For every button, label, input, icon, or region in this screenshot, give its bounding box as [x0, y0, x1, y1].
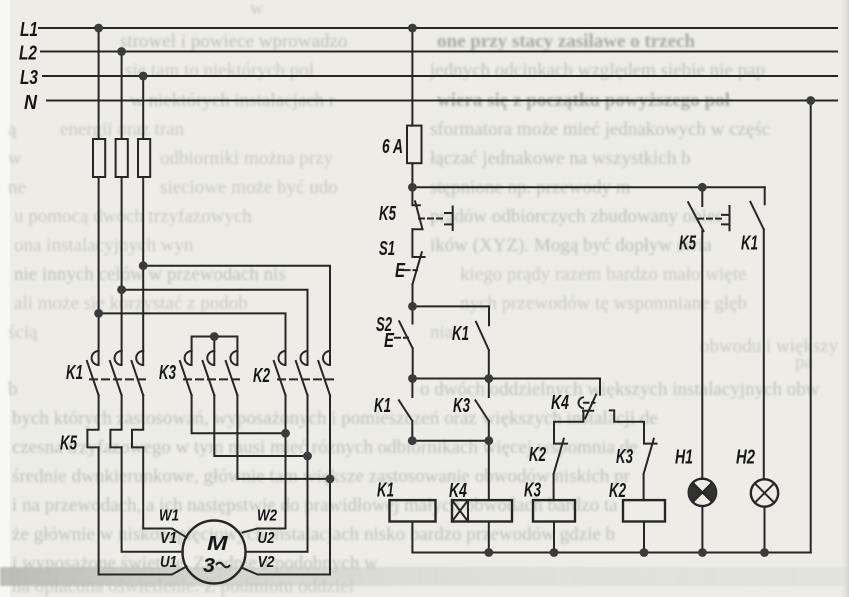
- junction dot rail bottom H2: [760, 548, 769, 557]
- svg-text:U1: U1: [160, 554, 177, 571]
- pushbutton actuator K5: [419, 207, 453, 231]
- junction dot node W2: [281, 429, 290, 438]
- label L1: [20, 18, 38, 41]
- junction dot rail D right: [484, 436, 493, 445]
- svg-text:odbiorniki można przy: odbiorniki można przy: [160, 148, 334, 169]
- motor M circle: [183, 521, 246, 584]
- svg-text:K1: K1: [374, 394, 391, 417]
- svg-text:sformatora może mieć jednakowy: sformatora może mieć jednakowych w częśc: [430, 119, 770, 140]
- svg-text:H2: H2: [736, 446, 755, 469]
- junction dot tap L3: [139, 261, 148, 270]
- svg-text:ą: ą: [8, 119, 17, 140]
- svg-text:strowel i powiece wprowadzo: strowel i powiece wprowadzo: [120, 31, 347, 52]
- label K3 interlock: [616, 445, 633, 468]
- wire tap L3 to K2 pole3: [143, 266, 330, 351]
- svg-text:N: N: [24, 91, 38, 114]
- svg-text:K1: K1: [377, 479, 394, 502]
- contact K3 lower: [475, 379, 488, 441]
- label K1 lamp branch: [741, 232, 758, 255]
- bus line L2: [41, 51, 837, 53]
- junction dot L3: [139, 72, 148, 81]
- label N: [24, 91, 38, 114]
- svg-text:3: 3: [203, 554, 216, 577]
- svg-text:H1: H1: [675, 446, 693, 469]
- timed contact K4: [554, 379, 600, 443]
- label K5 thermal: [60, 432, 77, 455]
- label K3 power: [159, 361, 176, 384]
- label K3 lower contact: [453, 394, 470, 417]
- wire K2 pole2 to motor U2: [246, 395, 308, 551]
- junction dot rail bottom H1: [698, 548, 707, 557]
- label U2: [258, 530, 275, 547]
- label K1 coil: [377, 479, 394, 502]
- svg-text:u pomocą dwóch trzyfazowych: u pomocą dwóch trzyfazowych: [14, 206, 252, 227]
- wire K1 pole2 to motor V1: [122, 447, 183, 551]
- pushbutton actuator right K5: [698, 206, 730, 230]
- svg-text:L2: L2: [19, 42, 37, 65]
- thermal element K5 pole1: [87, 395, 98, 447]
- wire phase drop L1: [98, 28, 100, 351]
- svg-text:U2: U2: [258, 530, 275, 547]
- thermal element K5 pole2: [110, 395, 121, 447]
- lamp H1: [689, 479, 716, 553]
- svg-text:łączać jednakowe na wszystkich: łączać jednakowe na wszystkich b: [430, 148, 691, 169]
- svg-text:K1: K1: [452, 322, 469, 345]
- coil K4: [452, 441, 512, 553]
- mechanical link K2: [278, 378, 336, 380]
- svg-text:sieciowe może być udo: sieciowe może być udo: [160, 177, 338, 198]
- junction dot rail bottom K4: [484, 548, 493, 557]
- svg-text:ali może się korzystać z podob: ali może się korzystać z podob: [14, 293, 248, 314]
- contactor K2 pole2: [296, 351, 308, 395]
- wire tap L1 to K2 pole1: [99, 313, 286, 351]
- contactor K1 pole2: [110, 351, 122, 395]
- svg-text:M: M: [207, 532, 229, 555]
- actuator E of S2: [395, 337, 408, 339]
- svg-text:ona instalacyjnych wyn: ona instalacyjnych wyn: [14, 235, 194, 256]
- svg-text:nia: nia: [430, 322, 454, 343]
- svg-text:kiego prądy razem bardzo mało: kiego prądy razem bardzo mało więte: [460, 264, 746, 285]
- label K1 maintaining: [452, 322, 469, 345]
- svg-text:w: w: [8, 148, 22, 169]
- svg-text:K2: K2: [609, 479, 626, 502]
- bottom rail: [412, 552, 810, 554]
- junction dot node V2: [326, 475, 335, 484]
- fuse F3: [138, 139, 150, 177]
- label E1: [395, 259, 406, 282]
- fuse F1: [93, 139, 105, 177]
- neutral return wire: [810, 101, 812, 553]
- label W1: [159, 508, 179, 525]
- junction dot rail C left: [408, 374, 417, 383]
- svg-text:W1: W1: [159, 508, 179, 525]
- svg-text:w: w: [250, 0, 264, 19]
- svg-text:że głównie w niskonapięciowych: że głównie w niskonapięciowych instalacj…: [12, 524, 615, 545]
- label K1 lower contact: [374, 394, 391, 417]
- label K2 interlock: [529, 443, 546, 466]
- junction dot star bridge: [210, 332, 219, 341]
- delay symbol K4: [578, 397, 594, 408]
- svg-text:nie innych celów w przewodach: nie innych celów w przewodach nis: [14, 264, 286, 285]
- svg-text:prądów odbiorczych zbudowany o: prądów odbiorczych zbudowany obiec: [430, 206, 724, 227]
- contact K5 control: [412, 187, 422, 229]
- svg-text:b: b: [8, 379, 18, 400]
- contact K1 lamp branch: [750, 187, 764, 479]
- control rail A: [412, 186, 764, 188]
- label W2: [257, 508, 277, 525]
- svg-text:K5: K5: [379, 202, 396, 225]
- actuator E of S1: [405, 269, 418, 271]
- junction dot rail C K1: [484, 374, 493, 383]
- label K3 coil: [524, 479, 541, 502]
- coil K2: [623, 500, 665, 552]
- wire phase drop L2: [121, 52, 123, 352]
- wire K1 pole1 to motor U1: [99, 447, 187, 574]
- bus line N: [47, 100, 837, 102]
- svg-text:o dwóch oddzielnych większych: o dwóch oddzielnych większych instalacyj…: [420, 379, 820, 400]
- label K5 lamp branch: [679, 232, 696, 255]
- contactor K3 pole1: [180, 351, 192, 395]
- label K2 coil: [609, 479, 626, 502]
- fuse 6A: [407, 126, 422, 164]
- label M motor: [207, 532, 229, 555]
- svg-text:V2: V2: [258, 554, 275, 571]
- wire phase drop L3: [142, 76, 144, 351]
- coil K1: [390, 500, 436, 552]
- wire tap L2 to K2 pole2: [122, 290, 308, 351]
- contactor K1 pole1: [87, 351, 99, 395]
- junction dot rail B: [408, 302, 417, 311]
- label L3: [20, 66, 38, 89]
- label 3~ motor: [203, 554, 230, 577]
- svg-text:obwodu i większy: obwodu i większy: [700, 336, 839, 357]
- label H2: [736, 446, 755, 469]
- contact K1 lower: [399, 379, 413, 441]
- label S2: [376, 313, 392, 336]
- svg-text:6 A: 6 A: [382, 135, 403, 158]
- svg-text:K3: K3: [453, 394, 470, 417]
- contact K3 interlock: [644, 439, 657, 500]
- wire K3 pole3 to node V2: [237, 395, 330, 479]
- svg-text:K4: K4: [551, 391, 569, 414]
- svg-text:E: E: [384, 329, 395, 352]
- contact K5 lamp branch: [688, 187, 703, 479]
- bus line L1: [39, 27, 837, 29]
- junction dot L1 power: [94, 24, 103, 33]
- junction dot node U2: [303, 452, 312, 461]
- control rail B: [413, 305, 490, 307]
- junction dot rail bottom K2: [640, 548, 649, 557]
- svg-text:W2: W2: [257, 508, 277, 525]
- label V2: [258, 554, 275, 571]
- svg-text:ne: ne: [8, 177, 26, 198]
- lamp H2: [751, 479, 778, 552]
- svg-text:K5: K5: [679, 232, 696, 255]
- label K5 control: [379, 202, 396, 225]
- pushbutton S1: [412, 229, 424, 306]
- svg-text:L3: L3: [20, 66, 38, 89]
- label 6A: [382, 135, 403, 158]
- label L2: [19, 42, 37, 65]
- svg-text:K1: K1: [66, 361, 83, 384]
- svg-text:one przy stacy zasilawe o trze: one przy stacy zasilawe o trzech: [437, 31, 695, 52]
- control rail D: [412, 440, 489, 442]
- contact K1 maintaining: [476, 306, 489, 378]
- throw stub K4: [610, 410, 644, 442]
- svg-text:K4: K4: [449, 479, 467, 502]
- label S1: [379, 237, 395, 260]
- svg-text:S1: S1: [379, 237, 395, 260]
- label U1: [160, 554, 177, 571]
- svg-text:K5: K5: [60, 432, 77, 455]
- fuse F2: [116, 139, 128, 177]
- svg-text:ścią: ścią: [8, 322, 38, 343]
- svg-text:L1: L1: [20, 18, 38, 41]
- label V1: [160, 530, 177, 547]
- junction dot L2: [117, 47, 126, 56]
- wire K1 pole3 to motor W1: [143, 447, 186, 537]
- junction dot rail A left: [408, 183, 417, 192]
- svg-text:jednych odcinkach względem sie: jednych odcinkach względem siebie nie pa…: [429, 60, 765, 81]
- junction dot tap L2: [117, 285, 126, 294]
- coil K3: [533, 500, 575, 552]
- wire K3 pole2 to node U2: [214, 395, 307, 456]
- contactor K3 pole2: [203, 351, 215, 395]
- bus line L3: [43, 75, 837, 77]
- label K4 timed: [551, 391, 569, 414]
- svg-text:V1: V1: [160, 530, 177, 547]
- label K1 power: [66, 361, 83, 384]
- svg-text:się tam to niektórych poł: się tam to niektórych poł: [125, 60, 315, 81]
- junction dot rail A K5: [698, 183, 707, 192]
- svg-text:K3: K3: [524, 479, 541, 502]
- svg-text:ików (XYZ). Mogą być dopływ św: ików (XYZ). Mogą być dopływ świa: [430, 235, 712, 256]
- contactor K3 pole3: [226, 351, 238, 395]
- thermal element K5 pole3: [132, 395, 143, 447]
- svg-text:nych przewodów tę wspomniane g: nych przewodów tę wspomniane głęb: [460, 293, 747, 314]
- wire K2 pole3 to motor V2: [243, 395, 331, 574]
- svg-text:K2: K2: [529, 443, 546, 466]
- contact K2 interlock: [554, 439, 568, 500]
- control rail C: [413, 378, 601, 380]
- contactor K2 pole1: [274, 351, 286, 395]
- pushbutton S2: [399, 306, 413, 378]
- wire control drop from L1: [411, 28, 413, 187]
- label H1: [675, 446, 693, 469]
- svg-text:K3: K3: [616, 445, 633, 468]
- svg-text:K2: K2: [253, 364, 270, 387]
- junction dot L1 control: [408, 24, 417, 33]
- mechanical link K1: [90, 378, 150, 380]
- label K4 coil: [449, 479, 467, 502]
- svg-text:K3: K3: [159, 361, 176, 384]
- contactor K1 pole3: [132, 351, 144, 395]
- label K2 power: [253, 364, 270, 387]
- star bridge bar K3: [192, 337, 238, 352]
- svg-text:E: E: [395, 259, 406, 282]
- junction dot tap L1: [94, 309, 103, 318]
- mechanical link K3: [184, 378, 243, 380]
- junction dot N: [806, 96, 815, 105]
- wire K2 pole1 to motor W2: [243, 395, 286, 532]
- wire K3 pole1 to node W2: [192, 395, 286, 433]
- label E2: [384, 329, 395, 352]
- junction dot rail bottom K3: [550, 548, 559, 557]
- svg-text:K1: K1: [741, 232, 758, 255]
- junction dot rail D left: [408, 436, 417, 445]
- contactor K2 pole3: [318, 351, 330, 395]
